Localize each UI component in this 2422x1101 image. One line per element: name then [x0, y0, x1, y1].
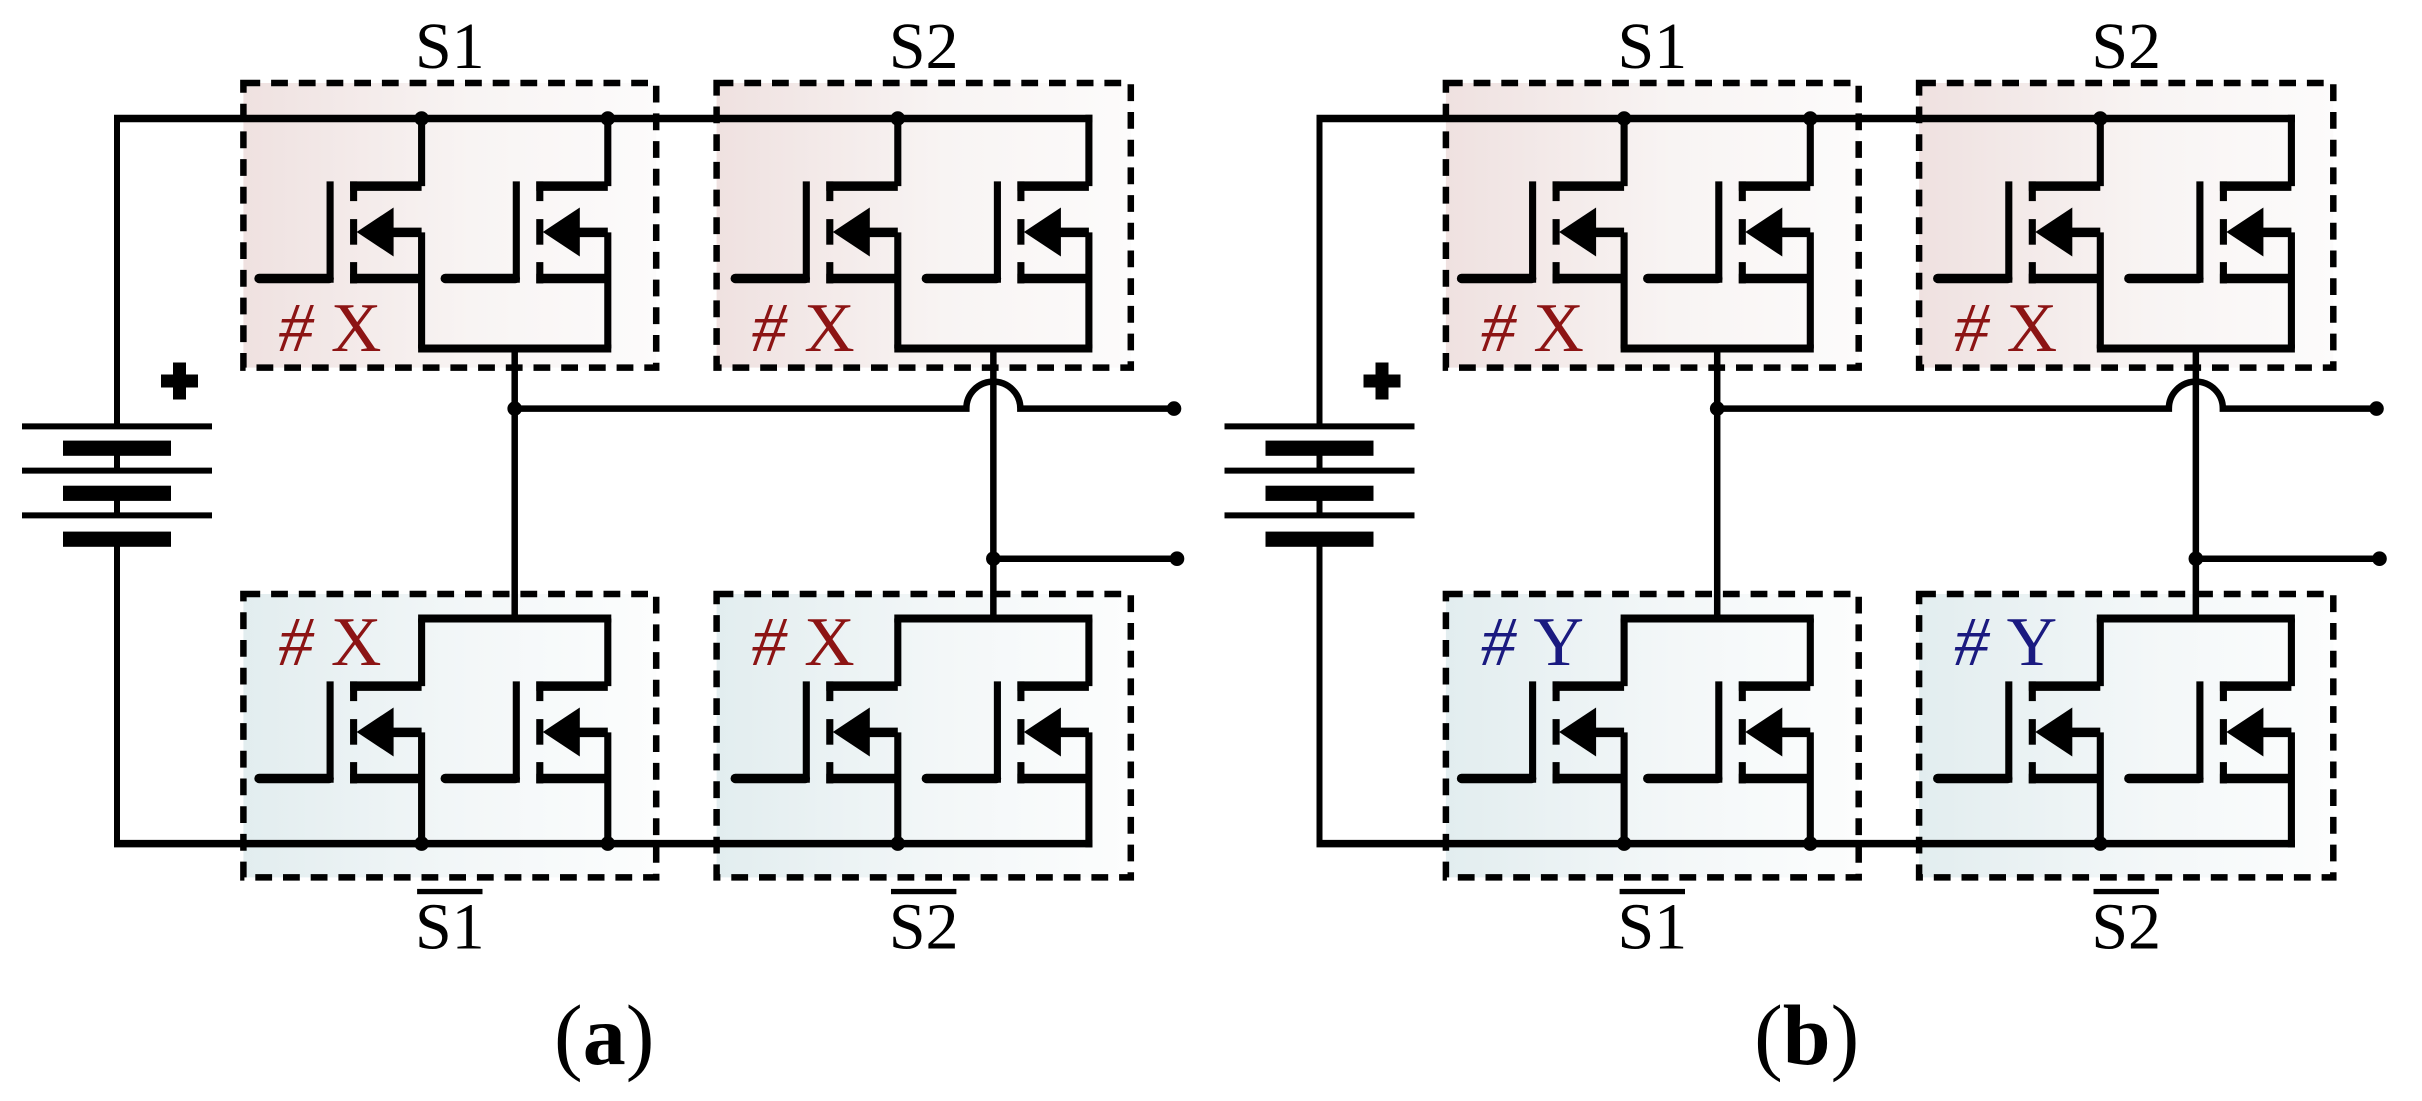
MOSFET Q2 (S1 b) — [1648, 115, 1811, 349]
phase B output wire (a) — [993, 555, 1177, 562]
MOSFET Q6 (S1-bar a) — [445, 619, 608, 848]
svg-text:S1: S1 — [415, 10, 485, 83]
MOSFET Q1 (S1 b) — [1462, 115, 1625, 349]
junction bottom rail / Q7 source (b) — [2093, 836, 2108, 851]
junction bottom rail / Q6 source (a) — [601, 836, 616, 851]
switch block S2 (a) box — [717, 83, 1131, 368]
battery Vb plus sign — [1364, 363, 1401, 400]
phase B output wire (b) — [2196, 555, 2380, 562]
svg-text:(b): (b) — [1754, 987, 1859, 1083]
S2 (a) source bar — [894, 345, 1092, 353]
battery Va plus sign — [161, 363, 198, 400]
bottom rail wire (a) — [114, 840, 1093, 848]
node phase A (a) — [507, 401, 522, 416]
switch block S1 (b) box — [1446, 83, 1859, 368]
MOSFET Q2 (S1 a) — [445, 115, 608, 349]
MOSFET Q4 (S2 a) — [926, 115, 1089, 349]
terminal phase A (a) — [1167, 401, 1182, 416]
MOSFET Q7 (S2-bar b) — [1938, 619, 2101, 848]
battery Va - terminal wire — [114, 539, 120, 840]
junction top rail / Q1 drain (a) — [414, 111, 429, 126]
terminal phase A (b) — [2369, 401, 2384, 416]
svg-text:# X: # X — [752, 604, 855, 681]
S1-bar (a) drain bar — [418, 615, 611, 623]
junction top rail / Q3 drain (b) — [2093, 111, 2108, 126]
battery Va + terminal wire — [114, 119, 120, 427]
phase A output wire with hop (b) — [1717, 382, 2376, 409]
MOSFET Q4 (S2 b) — [2129, 115, 2292, 349]
terminal phase B (b) — [2372, 551, 2387, 566]
svg-text:(a): (a) — [554, 987, 654, 1083]
S2 (b) source bar — [2097, 345, 2295, 353]
svg-text:# Y: # Y — [1954, 604, 2057, 681]
junction bottom rail / Q5 source (a) — [414, 836, 429, 851]
svg-text:S2: S2 — [2091, 891, 2161, 964]
S2-bar (b) drain bar — [2097, 615, 2295, 623]
svg-text:S1: S1 — [1617, 891, 1687, 964]
S1-bar (b) drain bar — [1621, 615, 1814, 623]
MOSFET Q8 (S2-bar b) — [2129, 619, 2292, 848]
switch block S1-bar (a) box — [243, 594, 656, 877]
junction bottom rail / Q5 source (b) — [1617, 836, 1632, 851]
junction bottom rail / Q6 source (b) — [1803, 836, 1818, 851]
MOSFET Q3 (S2 b) — [1938, 115, 2101, 349]
svg-text:# X: # X — [278, 604, 381, 681]
svg-text:S1: S1 — [415, 891, 485, 964]
bottom rail wire (b) — [1317, 840, 2296, 848]
S1 (b) source bar — [1621, 345, 1814, 353]
MOSFET Q5 (S1-bar a) — [259, 619, 422, 848]
phase leg 1 vertical wire (a) — [511, 349, 518, 619]
phase leg 2 vertical wire (b) — [2193, 349, 2200, 619]
svg-text:S1: S1 — [1617, 10, 1687, 83]
junction top rail / Q2 drain (a) — [601, 111, 616, 126]
junction top rail / Q3 drain (a) — [891, 111, 906, 126]
junction top rail / Q2 drain (b) — [1803, 111, 1818, 126]
svg-text:# X: # X — [278, 290, 381, 367]
switch block S2-bar (a) box — [717, 594, 1131, 877]
phase leg 2 vertical wire (a) — [990, 349, 997, 619]
svg-text:S2: S2 — [889, 891, 959, 964]
MOSFET Q8 (S2-bar a) — [926, 619, 1089, 848]
MOSFET Q1 (S1 a) — [259, 115, 422, 349]
phase leg 1 vertical wire (b) — [1714, 349, 1721, 619]
battery Va plates — [22, 426, 212, 546]
MOSFET Q7 (S2-bar a) — [735, 619, 898, 848]
top rail wire (a) — [114, 115, 1093, 123]
terminal phase B (a) — [1170, 551, 1185, 566]
junction bottom rail / Q7 source (a) — [891, 836, 906, 851]
battery Vb - terminal wire — [1317, 539, 1323, 840]
switch block S2-bar (b) box — [1919, 594, 2333, 877]
MOSFET Q3 (S2 a) — [735, 115, 898, 349]
node phase B (b) — [2189, 551, 2204, 566]
battery Vb plates — [1225, 426, 1415, 546]
svg-text:# Y: # Y — [1481, 604, 1584, 681]
node phase A (b) — [1710, 401, 1725, 416]
junction top rail / Q1 drain (b) — [1617, 111, 1632, 126]
switch block S1-bar (b) box — [1446, 594, 1859, 877]
switch block S2 (b) box — [1919, 83, 2333, 368]
battery Vb + terminal wire — [1317, 119, 1323, 427]
MOSFET Q6 (S1-bar b) — [1648, 619, 1811, 848]
S1 (a) source bar — [418, 345, 611, 353]
switch block S1 (a) box — [243, 83, 656, 368]
S2-bar (a) drain bar — [894, 615, 1092, 623]
svg-text:# X: # X — [752, 290, 855, 367]
MOSFET Q5 (S1-bar b) — [1462, 619, 1625, 848]
phase A output wire with hop (a) — [515, 382, 1174, 409]
node phase B (a) — [986, 551, 1001, 566]
svg-text:# X: # X — [1481, 290, 1584, 367]
top rail wire (b) — [1317, 115, 2296, 123]
svg-text:# X: # X — [1954, 290, 2057, 367]
svg-text:S2: S2 — [2091, 10, 2161, 83]
svg-text:S2: S2 — [889, 10, 959, 83]
